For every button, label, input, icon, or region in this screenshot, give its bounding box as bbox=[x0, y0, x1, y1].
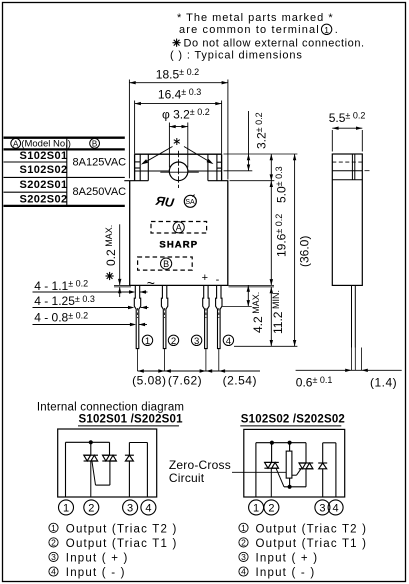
svg-text:A: A bbox=[176, 223, 182, 233]
extension line pin seating to right bbox=[229, 286, 275, 288]
circled B marking bbox=[161, 258, 172, 269]
svg-text:(Model No.): (Model No.) bbox=[21, 139, 71, 150]
package body outline bbox=[129, 181, 228, 286]
wire triac to pin2 (left diagram) bbox=[90, 461, 92, 497]
phototriac (left diagram) bbox=[102, 455, 116, 461]
pin number 3 circle bbox=[191, 335, 201, 345]
wire phototriac to bottom rail bbox=[305, 469, 307, 487]
leader from label to zero-cross block bbox=[232, 471, 286, 473]
svg-text:1: 1 bbox=[63, 503, 69, 515]
pin 2 centerline dash bbox=[164, 308, 166, 318]
pin terminal 2 (left diagram) bbox=[84, 500, 99, 515]
wire top rail (right diagram) bbox=[256, 442, 306, 444]
circled A marking bbox=[173, 222, 184, 233]
wire top rail (left diagram) bbox=[66, 441, 110, 443]
svg-text:+: + bbox=[202, 272, 208, 284]
pin 4 outline bbox=[216, 285, 222, 348]
svg-text:B: B bbox=[92, 139, 97, 148]
svg-text:1: 1 bbox=[51, 523, 56, 533]
right metal corner box bbox=[208, 154, 222, 181]
phototriac (right diagram) bbox=[299, 463, 313, 469]
bottom dimension line front view bbox=[138, 369, 261, 372]
side view bottom dimension line bbox=[296, 369, 402, 372]
extension line body top to right bbox=[230, 180, 275, 182]
table row line 3 bbox=[4, 191, 67, 193]
main output triac (right diagram) bbox=[264, 462, 278, 468]
svg-text:Input ( - ): Input ( - ) bbox=[256, 567, 316, 579]
body top edge right segment bbox=[208, 180, 229, 182]
svg-text:Input ( + ): Input ( + ) bbox=[66, 552, 129, 564]
dim 19.6 vertical bbox=[270, 181, 273, 286]
label 4-1.25 leader bbox=[33, 306, 149, 309]
CSA mark bbox=[184, 195, 196, 208]
svg-text:3: 3 bbox=[194, 336, 199, 347]
svg-text:8A250VAC: 8A250VAC bbox=[73, 186, 127, 198]
svg-text:~: ~ bbox=[147, 275, 155, 291]
pin terminal 3 (left diagram) bbox=[123, 500, 138, 515]
pin terminal 1 (left diagram) bbox=[59, 500, 74, 515]
svg-text:A: A bbox=[13, 139, 19, 148]
svg-text:ЯU: ЯU bbox=[154, 194, 176, 211]
wire pin3 riser through LED (right) bbox=[322, 469, 324, 497]
dim 5.5 line with arrows bbox=[332, 127, 362, 130]
circled terminal 1 in note bbox=[321, 24, 337, 36]
dim 4.2 MAX vertical bbox=[247, 285, 250, 306]
side view tab metal line bbox=[332, 170, 362, 172]
svg-text:B: B bbox=[163, 259, 169, 269]
pin 1 centerline dash bbox=[137, 308, 139, 318]
pin terminal 4 (left diagram) bbox=[141, 500, 156, 515]
wire bottom gate rail (right) bbox=[284, 486, 306, 488]
leader arrow from star to right metal box bbox=[184, 147, 214, 165]
svg-text:Output (Triac T1 ): Output (Triac T1 ) bbox=[66, 538, 178, 550]
junction node above triac (right) bbox=[270, 441, 274, 445]
svg-text:8A125VAC: 8A125VAC bbox=[73, 157, 127, 169]
pin terminal 4 (right diagram) bbox=[328, 500, 343, 515]
pin number 2 circle bbox=[168, 335, 178, 345]
side view tab bottom line bbox=[332, 179, 362, 181]
mounting tab outline bbox=[135, 154, 222, 181]
mounting hole bbox=[169, 162, 188, 181]
input LED (right diagram) bbox=[318, 463, 327, 469]
left legend line 4 bbox=[49, 567, 58, 576]
svg-text:1: 1 bbox=[324, 25, 329, 35]
svg-text:S202S02: S202S02 bbox=[20, 193, 68, 205]
svg-text:4: 4 bbox=[145, 503, 151, 515]
wire phototriac to gate loop bbox=[109, 461, 111, 485]
pin terminal 2 (right diagram) bbox=[264, 500, 279, 515]
svg-text:3: 3 bbox=[51, 552, 56, 562]
extension line pin shoulder to right bbox=[223, 305, 252, 307]
extension line tab metal bottom to right bbox=[224, 170, 253, 172]
input LED (left diagram) bbox=[125, 455, 134, 461]
svg-text:(2.54): (2.54) bbox=[223, 374, 257, 388]
svg-text:* The metal parts marked *: * The metal parts marked * bbox=[177, 12, 334, 24]
label 4-0.8 leader bbox=[33, 323, 148, 326]
body top edge left segment bbox=[124, 180, 148, 182]
right legend line 4 bbox=[239, 567, 248, 576]
dim 5.0 vertical bbox=[270, 154, 273, 181]
tab metal edge line bbox=[135, 170, 222, 172]
table row line 1 bbox=[4, 161, 67, 163]
star mark above hole bbox=[174, 138, 180, 145]
wire gate slant to triac bbox=[92, 462, 96, 486]
wire rail down to phototriac (right) bbox=[305, 443, 307, 463]
table row line 2 bbox=[4, 176, 125, 178]
svg-text:Input ( - ): Input ( - ) bbox=[66, 567, 126, 579]
wire pin1 riser (right diagram) bbox=[255, 443, 257, 497]
svg-text:(7.62): (7.62) bbox=[168, 374, 202, 388]
dim 18.5 extension lines bbox=[128, 80, 130, 179]
svg-text:(1.4): (1.4) bbox=[370, 376, 397, 390]
extension line tab top to right bbox=[224, 153, 298, 155]
dim 11.2 MIN vertical bbox=[270, 287, 273, 346]
extension line pin tips to right bbox=[234, 345, 297, 347]
pin terminal 1 (right diagram) bbox=[249, 500, 264, 515]
svg-text:S102S01: S102S01 bbox=[20, 150, 68, 162]
wire zero-cross bottom lead bbox=[289, 478, 291, 487]
extension line body bottom to left bbox=[114, 284, 130, 286]
left metal corner box bbox=[135, 154, 149, 181]
svg-text:4: 4 bbox=[333, 503, 339, 515]
svg-text:(5.08): (5.08) bbox=[132, 374, 166, 388]
wire triac gate slant (right) bbox=[276, 468, 284, 487]
svg-text:3: 3 bbox=[127, 503, 133, 515]
svg-text:SA: SA bbox=[185, 199, 195, 206]
junction node above zero-cross block bbox=[288, 441, 292, 445]
svg-text:1: 1 bbox=[253, 503, 259, 515]
table thick top rule bbox=[4, 137, 125, 139]
wire input top rail (left diagram) bbox=[129, 442, 147, 444]
wire pin4 riser (right diagram) bbox=[335, 443, 337, 497]
svg-text:3: 3 bbox=[241, 552, 246, 562]
svg-text:Output (Triac T1 ): Output (Triac T1 ) bbox=[256, 538, 368, 550]
svg-text:(36.0): (36.0) bbox=[298, 236, 312, 267]
right legend line 3 bbox=[239, 552, 248, 561]
svg-text:S102S02: S102S02 bbox=[20, 164, 68, 176]
wire pin1 riser (left diagram) bbox=[65, 442, 67, 497]
dim 3.2 vertical (right) bbox=[247, 111, 250, 171]
table thick rule under header bbox=[4, 148, 125, 150]
side view body outline bbox=[332, 154, 362, 285]
svg-text:S102S02 /S202S02: S102S02 /S202S02 bbox=[241, 414, 345, 426]
pin 1 outline bbox=[134, 285, 140, 348]
pin 3 centerline dash bbox=[205, 308, 207, 318]
dim phi 3.2 extension lines bbox=[168, 123, 170, 168]
zero-cross circuit block bbox=[286, 451, 292, 478]
svg-text:4: 4 bbox=[241, 567, 246, 577]
svg-text:2: 2 bbox=[268, 503, 274, 515]
dim 5.5 extension lines bbox=[331, 130, 333, 152]
wire input top rail (right diagram) bbox=[323, 442, 336, 444]
dim phi 3.2 line with outside arrows bbox=[169, 125, 187, 128]
svg-text:Do not allow external connecti: Do not allow external connection. bbox=[184, 37, 365, 49]
left legend line 3 bbox=[49, 552, 58, 561]
left diagram outer box bbox=[58, 429, 157, 497]
pin number 4 circle bbox=[223, 335, 233, 345]
right legend line 2 bbox=[239, 538, 248, 547]
dim 16.4 extension lines bbox=[134, 101, 136, 154]
table column divider bbox=[66, 137, 68, 205]
side view centerline stub bbox=[365, 170, 370, 172]
pin extension lines below tips bbox=[137, 349, 139, 371]
svg-text:2: 2 bbox=[171, 336, 176, 347]
svg-text:.: . bbox=[335, 24, 338, 36]
svg-text:2: 2 bbox=[88, 503, 94, 515]
junction node below zero-cross block bbox=[288, 485, 292, 489]
model table bbox=[4, 137, 127, 206]
junction node above triac T1 bbox=[89, 440, 93, 444]
svg-text:Circuit: Circuit bbox=[169, 471, 205, 485]
pin 2 outline bbox=[161, 285, 167, 348]
table header circled B bbox=[90, 138, 100, 148]
svg-text:2: 2 bbox=[51, 538, 56, 548]
svg-text:Output (Triac T2 ): Output (Triac T2 ) bbox=[66, 523, 178, 535]
svg-text:1: 1 bbox=[145, 336, 150, 347]
note asterisk star symbol bbox=[173, 39, 181, 47]
table header circled A bbox=[11, 138, 21, 148]
svg-text:SHARP: SHARP bbox=[159, 240, 198, 251]
svg-text:Zero-Cross: Zero-Cross bbox=[169, 458, 231, 472]
wire dot to main triac bbox=[90, 442, 92, 455]
svg-text:Output (Triac T2 ): Output (Triac T2 ) bbox=[256, 523, 368, 535]
side view metal plate edges bbox=[351, 154, 353, 180]
svg-text:1: 1 bbox=[241, 523, 246, 533]
svg-text:S102S01 /S202S01: S102S01 /S202S01 bbox=[79, 414, 184, 426]
star 0.2 MAX symbol bbox=[106, 272, 114, 280]
main output triac (left diagram) bbox=[84, 455, 98, 461]
side view pin extension lines bbox=[351, 348, 353, 371]
svg-text:Internal connection diagram: Internal connection diagram bbox=[37, 401, 184, 413]
leader arrow from star to left metal box bbox=[141, 147, 173, 165]
wire zero-cross top lead bbox=[289, 443, 291, 451]
wire gate loop bottom bbox=[96, 484, 110, 486]
side view pin bbox=[351, 285, 353, 347]
wire phototriac gate to zero-cross block bbox=[292, 469, 301, 475]
wire rail down to phototriac bbox=[109, 442, 111, 455]
hole centerline vertical bbox=[178, 151, 180, 188]
wire triac to pin2 (right diagram) bbox=[270, 468, 272, 497]
extension line body bottom to right bbox=[229, 284, 275, 286]
wire pin3 riser through LED bbox=[128, 461, 130, 497]
extension line pin seating to left bbox=[114, 286, 131, 288]
svg-text:Input ( + ): Input ( + ) bbox=[256, 552, 319, 564]
right legend line 1 bbox=[239, 523, 248, 532]
svg-text:( ) : Typical dimensions: ( ) : Typical dimensions bbox=[170, 50, 303, 62]
svg-text:-: - bbox=[216, 274, 220, 286]
left legend line 2 bbox=[49, 538, 58, 547]
svg-text:4: 4 bbox=[226, 336, 231, 347]
pin number 1 circle bbox=[142, 335, 152, 345]
svg-text:4: 4 bbox=[51, 567, 56, 577]
dim 18.5 line with arrows bbox=[129, 81, 228, 84]
svg-text:S202S01: S202S01 bbox=[20, 179, 68, 191]
dashed marking box B bbox=[138, 257, 193, 270]
hole centerline horizontal bbox=[160, 171, 199, 173]
label 4-1.1 leader bbox=[33, 290, 148, 293]
right diagram outer box bbox=[244, 429, 345, 497]
wire pin4 riser (left diagram) bbox=[146, 443, 148, 498]
pin 3 outline bbox=[203, 285, 209, 348]
left legend line 1 bbox=[49, 523, 58, 532]
dashed marking box A bbox=[151, 222, 207, 234]
table thick bottom rule bbox=[4, 205, 125, 207]
svg-text:3: 3 bbox=[319, 503, 325, 515]
svg-text:are common to terminal: are common to terminal bbox=[179, 24, 320, 36]
side view hole hidden line bbox=[332, 161, 362, 163]
dim 16.4 line with arrows bbox=[135, 102, 222, 105]
dim (36.0) vertical bbox=[293, 154, 296, 346]
0.2 MAX dimension arrows bbox=[118, 224, 121, 297]
wire rail to main triac (right) bbox=[271, 443, 273, 463]
svg-text:2: 2 bbox=[241, 538, 246, 548]
pin terminal 3 (right diagram) bbox=[315, 500, 330, 515]
pin 4 centerline dash bbox=[218, 308, 220, 318]
